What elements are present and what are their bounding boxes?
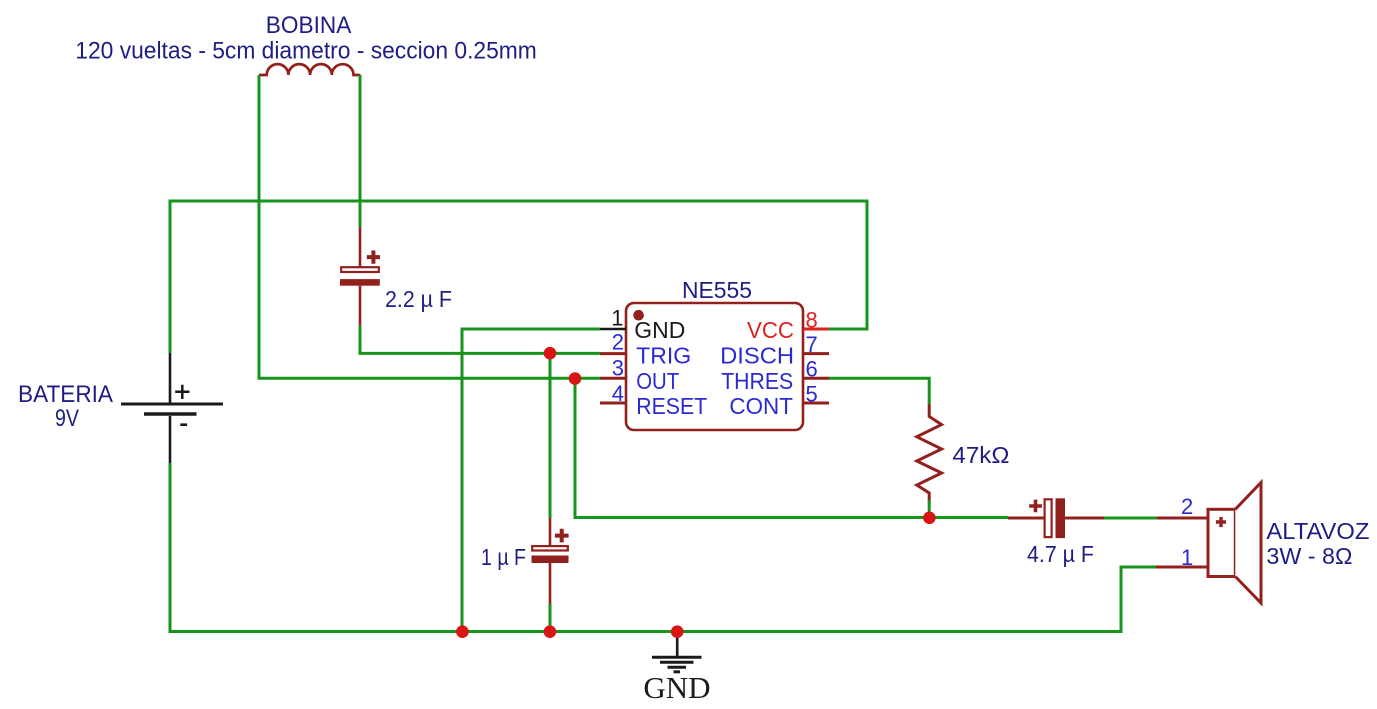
- svg-text:47kΩ: 47kΩ: [952, 442, 1009, 468]
- battery BAT1 lead top: [169, 353, 172, 403]
- svg-text:2: 2: [612, 330, 624, 355]
- wire coil left to OUT rail: [259, 75, 600, 378]
- pin 1 stub: [600, 328, 626, 331]
- speaker pin number 2: [1181, 494, 1193, 519]
- capacitor C3 4.7uF lead left: [1008, 517, 1044, 520]
- pin number 6: [806, 357, 818, 382]
- junction rail node B: [544, 625, 557, 638]
- ground bar 3: [668, 666, 687, 669]
- capacitor C2 bottom plate: [532, 556, 569, 564]
- label ALTAVOZ: [1266, 518, 1369, 544]
- wire THRES to resistor: [829, 378, 929, 404]
- pin 3 stub: [600, 377, 626, 380]
- battery BAT1 top plate: [121, 403, 223, 406]
- capacitor C3 left plate: [1045, 499, 1052, 537]
- pin 2 stub: [600, 352, 626, 355]
- ground symbol lead: [676, 632, 679, 658]
- svg-text:VCC: VCC: [747, 317, 794, 343]
- battery BAT1 bottom plate: [144, 412, 197, 416]
- svg-text:OUT: OUT: [636, 368, 679, 394]
- pin number 5: [806, 381, 818, 406]
- speaker LS1 horn: [1235, 483, 1261, 604]
- capacitor C2 lead bottom: [549, 563, 552, 604]
- svg-text:3: 3: [612, 356, 624, 381]
- svg-text:4: 4: [612, 381, 624, 406]
- svg-text:3W - 8Ω: 3W - 8Ω: [1266, 543, 1352, 569]
- pin label CONT: [729, 393, 793, 419]
- pin number 4: [612, 381, 624, 406]
- svg-text:BOBINA: BOBINA: [266, 12, 352, 39]
- capacitor C1 plus sign: [367, 251, 380, 264]
- pin 6 stub: [803, 377, 829, 380]
- label C2 value 1uF: [481, 544, 526, 570]
- pin number 1: [611, 306, 623, 331]
- svg-text:NE555: NE555: [682, 277, 752, 303]
- wire C1 bottom to TRIG: [360, 326, 600, 354]
- label C3 value 4.7uF: [1027, 541, 1094, 567]
- speaker plus sign: [1216, 517, 1226, 527]
- capacitor C3 plus sign: [1029, 500, 1042, 513]
- svg-text:2: 2: [1181, 494, 1193, 519]
- label GND net: [643, 670, 710, 705]
- wire coil right down to C1: [359, 75, 362, 227]
- wire GND pin1 to bottom rail: [462, 329, 600, 632]
- pin label VCC: [747, 317, 794, 343]
- label NE555: [682, 277, 752, 303]
- inductor L1 BOBINA: [259, 64, 360, 75]
- svg-text:6: 6: [806, 357, 818, 382]
- pin 8 stub: [803, 328, 829, 331]
- svg-text:TRIG: TRIG: [636, 342, 691, 368]
- label 3W - 8ohm: [1266, 543, 1352, 569]
- junction rail GND node: [671, 625, 684, 638]
- capacitor C3 right plate: [1056, 498, 1066, 538]
- wire resistor bottom to junction: [928, 500, 931, 518]
- capacitor C2 top plate: [532, 546, 568, 550]
- pin label GND: [634, 317, 685, 343]
- svg-text:120 vueltas - 5cm diametro - s: 120 vueltas - 5cm diametro - seccion 0.2…: [75, 38, 537, 65]
- pin number 8: [806, 307, 818, 332]
- capacitor C3 lead right: [1065, 517, 1104, 520]
- label 9V: [55, 405, 79, 432]
- svg-text:CONT: CONT: [729, 393, 793, 419]
- wire bottom rail: [170, 463, 1157, 632]
- wire top rail battery to pin8: [170, 201, 867, 353]
- svg-text:9V: 9V: [55, 405, 79, 432]
- svg-text:2.2 µ F: 2.2 µ F: [385, 286, 452, 312]
- ground bar 4: [674, 670, 681, 673]
- junction OUT node: [569, 372, 582, 385]
- wire TRIG junction down to C2: [549, 353, 552, 518]
- pin number 2: [612, 330, 624, 355]
- label C1 value 2.2uF: [385, 286, 452, 312]
- op IC U1 NE555 box: [626, 303, 803, 430]
- pin label OUT: [636, 368, 679, 394]
- label BATERIA: [18, 381, 113, 408]
- capacitor C2 1uF lead top: [549, 518, 552, 546]
- svg-text:GND: GND: [643, 670, 710, 705]
- pin 1 marker dot: [633, 310, 644, 321]
- svg-text:1: 1: [611, 306, 623, 331]
- svg-text:GND: GND: [634, 317, 685, 343]
- pin label RESET: [636, 393, 707, 419]
- svg-text:RESET: RESET: [636, 393, 707, 419]
- svg-text:8: 8: [806, 307, 818, 332]
- wire C2 bottom to rail: [549, 604, 552, 632]
- svg-text:4.7 µ F: 4.7 µ F: [1027, 541, 1094, 567]
- label BOBINA subtitle: [75, 38, 537, 65]
- capacitor C1 lead bottom: [359, 286, 362, 326]
- speaker LS1 body rect: [1208, 509, 1235, 576]
- junction rail node A: [456, 625, 469, 638]
- svg-text:BATERIA: BATERIA: [18, 381, 113, 408]
- pin label TRIG: [636, 342, 691, 368]
- wire C3 to speaker pin2: [1104, 517, 1157, 520]
- pin label THRES: [721, 368, 793, 394]
- battery plus sign: [175, 385, 189, 399]
- ground bar 2: [660, 661, 694, 664]
- capacitor C2 plus sign: [555, 529, 569, 543]
- ground bar 1: [652, 656, 702, 659]
- pin number 7: [806, 332, 818, 357]
- pin 7 stub: [803, 352, 829, 355]
- battery BAT1 lead bottom: [169, 416, 172, 463]
- battery minus sign: [180, 423, 187, 426]
- svg-text:7: 7: [806, 332, 818, 357]
- label R1 value 47k: [952, 442, 1009, 468]
- capacitor C1 top plate: [341, 267, 379, 272]
- svg-text:1 µ F: 1 µ F: [481, 544, 526, 570]
- svg-text:ALTAVOZ: ALTAVOZ: [1266, 518, 1369, 544]
- svg-text:1: 1: [1181, 545, 1193, 570]
- pin number 3: [612, 356, 624, 381]
- wire junction to C3: [929, 516, 1008, 519]
- pin 4 stub: [600, 402, 626, 405]
- svg-text:5: 5: [806, 381, 818, 406]
- label BOBINA title: [266, 12, 352, 39]
- speaker pin 2 stub: [1157, 517, 1208, 520]
- svg-text:THRES: THRES: [721, 368, 793, 394]
- capacitor C1 bottom plate: [340, 279, 380, 286]
- pin label DISCH: [720, 342, 794, 368]
- wire OUT junction down and right to R1 junction: [575, 378, 929, 517]
- junction TRIG node: [544, 347, 557, 360]
- capacitor C1 2.2uF lead top: [359, 227, 362, 268]
- speaker pin 1 stub: [1156, 566, 1208, 569]
- pin 5 stub: [803, 402, 829, 405]
- resistor R1 47k zigzag: [917, 405, 942, 503]
- speaker pin number 1: [1181, 545, 1193, 570]
- svg-text:DISCH: DISCH: [720, 342, 794, 368]
- junction R1 bottom node: [923, 512, 936, 525]
